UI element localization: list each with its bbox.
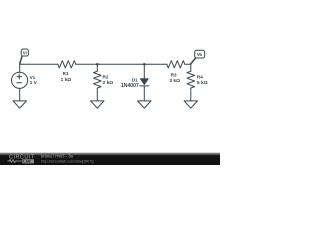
svg-text:V1: V1 — [30, 75, 36, 80]
labels — [23, 51, 208, 89]
resistor R1 — [58, 61, 76, 68]
junction node at D1 — [143, 63, 146, 66]
ground (R2) — [91, 101, 104, 108]
ground (D1) — [138, 101, 151, 108]
svg-text:5 kΩ: 5 kΩ — [197, 80, 208, 86]
footer text — [41, 154, 94, 164]
wire R3 to node Vo — [185, 63, 191, 65]
ground (R4) — [184, 101, 197, 108]
resistor R3 — [167, 61, 185, 68]
svg-text:R1: R1 — [63, 71, 69, 76]
voltage source V1 — [12, 64, 28, 101]
svg-text:1 kΩ: 1 kΩ — [61, 77, 72, 83]
diode D1 — [140, 64, 149, 101]
svg-text:D1: D1 — [132, 77, 138, 82]
footer bar — [0, 153, 220, 165]
net flag Vo — [191, 50, 205, 64]
svg-text:Vo: Vo — [197, 52, 203, 57]
svg-text:http://circuitlab.com/c6wj3W7g: http://circuitlab.com/c6wj3W7g — [41, 158, 94, 163]
svg-text:2 kΩ: 2 kΩ — [103, 80, 114, 86]
svg-text:1 V: 1 V — [30, 80, 38, 86]
wire R1 to node A and D1 to R3 — [76, 63, 167, 65]
svg-text:LAB: LAB — [23, 160, 31, 164]
wire main horizontal net Vi node to R1 — [20, 63, 58, 65]
net flag Vi — [20, 49, 29, 64]
svg-text:Vi: Vi — [23, 51, 27, 56]
CircuitLab logo — [8, 155, 35, 164]
svg-text:R2: R2 — [103, 74, 109, 79]
ground (V1) — [13, 101, 26, 108]
resistor R2 — [94, 64, 102, 101]
svg-text:1N4007: 1N4007 — [121, 83, 139, 89]
svg-text:R4: R4 — [197, 74, 203, 79]
svg-text:3 kΩ: 3 kΩ — [169, 78, 180, 84]
junction node at R2 — [96, 63, 99, 66]
resistor R4 — [187, 64, 195, 101]
svg-text:R3: R3 — [171, 72, 177, 77]
